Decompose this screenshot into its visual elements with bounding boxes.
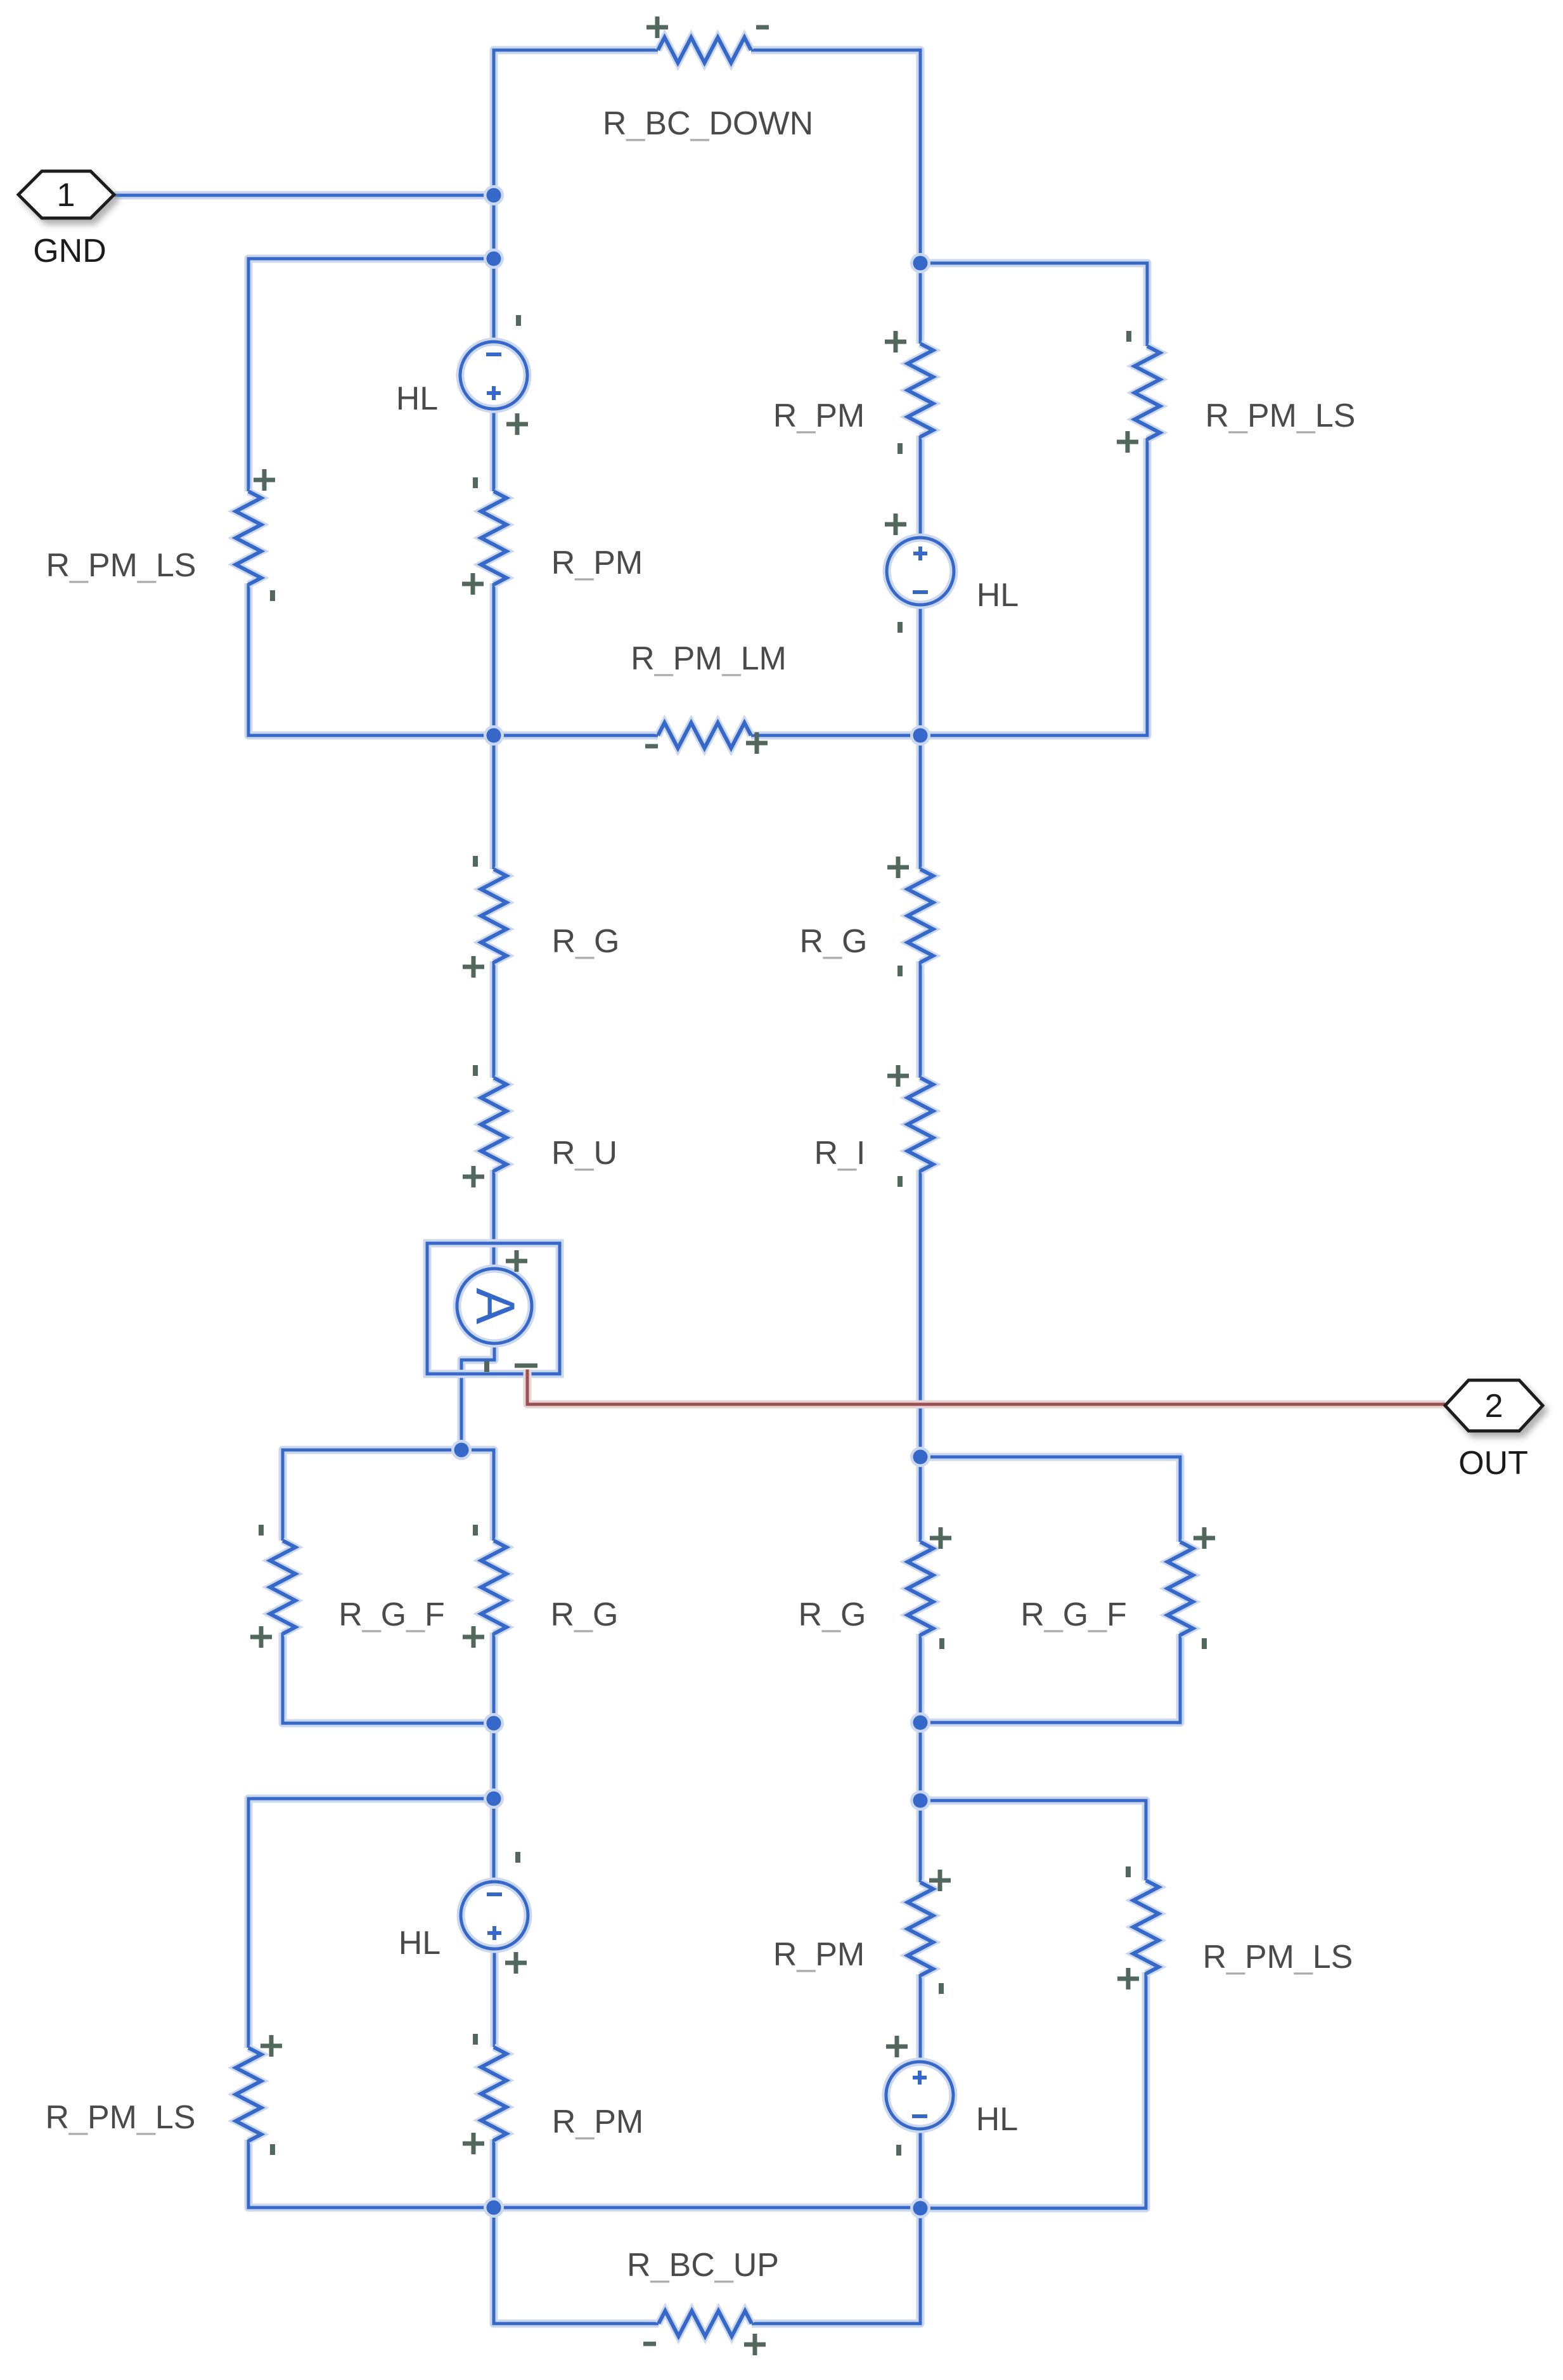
wire R_BC_UP loop left [494,2208,659,2324]
wire node H to HL-LL top [490,1799,498,1883]
wire R_G_F-LR bottom to node J [920,1634,1180,1723]
node G (junction dot) [484,1713,504,1733]
wire node A to node B [490,195,498,259]
node busR (junction dot) [910,725,930,746]
wire bottom bus middle [494,2204,920,2212]
wire R_PM-LR bottom to HL-LR top [917,1974,925,2063]
wire LL R_PM_LS bottom to bus [248,2140,494,2208]
svg-text:OUT: OUT [1458,1445,1528,1482]
wire R_U to ammeter circle [490,1170,498,1272]
voltage source HL lower-right (circle symbol) [886,2062,953,2129]
resistor R_PM lower-right polarity marks [929,1870,951,1891]
ammeter U1 circle with A glyph [457,1269,532,1343]
resistor zigzag R_G_F lower-left [270,1541,295,1634]
svg-text:A: A [465,1288,525,1324]
resistor R_G_F lower-right polarity marks [1193,1527,1215,1549]
node F (junction dot) [451,1440,472,1460]
wire node K to R_PM-LR top [917,1801,925,1882]
svg-text:R_PM_LS: R_PM_LS [46,547,196,584]
voltage source HL top-left (circle symbol) [460,342,527,409]
svg-text:R_BC_DOWN: R_BC_DOWN [603,105,813,142]
wire ammeter minus to port OUT (signal) [527,1369,1445,1404]
wire node I to R_G-LR lead [917,1457,925,1542]
svg-text:R_BC_UP: R_BC_UP [627,2247,779,2284]
wire node F jog to R_G-LL lead [461,1450,494,1541]
resistor R_PM_LS top-right polarity marks [1126,331,1131,342]
resistor zigzag R_PM top-left [481,491,506,585]
node K (junction dot) [910,1790,930,1811]
wire node I to R_G_F-LR lead [920,1457,1180,1542]
wire node C to TR R_PM_LS top [920,263,1147,346]
wire LR R_PM_LS bottom to bus [920,1972,1146,2208]
resistor R_BC_UP polarity marks [643,2342,656,2346]
resistor R_G mid-left polarity marks [473,856,478,867]
svg-text:HL: HL [396,380,438,417]
wire R_BC_DOWN loop left/top [494,50,658,195]
wire R_G-LR bottom to node J [917,1634,925,1723]
port 2 OUT hexagon [1445,1380,1543,1431]
node busL (junction dot) [484,725,504,746]
wire R_PM-TL bottom to left bus [490,583,498,735]
wire bus to TR R_PM_LS bottom [920,438,1147,735]
svg-text:R_G: R_G [800,923,868,960]
node A (junction dot) [484,185,504,205]
wire TL R_PM_LS branch lower to bus [248,583,494,735]
svg-text:R_U: R_U [551,1135,617,1172]
wire R_G-MR to R_I [917,961,925,1078]
resistor R_PM_LS lower-right polarity marks [1126,1866,1131,1877]
voltage source HL lower-left polarity marks [515,1852,520,1863]
resistor zigzag R_PM lower-right [908,1882,933,1976]
resistor R_G lower-right polarity marks [930,1527,951,1549]
port 1 GND hexagon [18,171,114,218]
wire ammeter out to node F [461,1342,494,1450]
resistor R_PM_LS top-left polarity marks [254,469,275,491]
resistor zigzag R_BC_UP [659,2311,752,2336]
svg-text:R_G: R_G [552,923,620,960]
resistor zigzag R_PM_LS top-left [236,491,261,585]
resistor R_G mid-right polarity marks [887,857,909,878]
wire node C to R_PM-TR top [917,263,925,344]
resistor R_PM lower-left polarity marks [473,2034,478,2045]
resistor R_PM_LS lower-left polarity marks [260,2035,282,2057]
svg-text:R_PM: R_PM [552,2104,643,2140]
svg-text:R_PM: R_PM [551,545,643,581]
svg-text:R_PM: R_PM [773,1936,865,1973]
wire HL-LR bottom to bottom bus [917,2128,925,2208]
resistor zigzag R_G lower-right [908,1542,933,1635]
resistor zigzag R_PM_LM [658,723,751,748]
resistor R_U polarity marks [473,1065,478,1076]
svg-text:R_PM_LS: R_PM_LS [45,2099,195,2136]
resistor zigzag R_G mid-right [908,869,933,962]
resistor R_PM_LM polarity marks [645,744,658,749]
wire R_I bottom to node I [917,1170,925,1457]
svg-text:HL: HL [977,577,1019,614]
ammeter U1 block frame [427,1243,560,1374]
svg-text:1: 1 [57,177,75,214]
node botR (junction dot) [910,2198,930,2218]
svg-text:HL: HL [399,1925,441,1962]
wire R_G-ML to R_U [490,961,498,1078]
resistor zigzag R_U [481,1078,506,1171]
wire bus right segment [751,732,920,740]
resistor R_BC_DOWN polarity marks [646,16,668,38]
wire left bus to R_G-ML [490,735,498,869]
wire node J to node K [917,1723,925,1801]
voltage source HL top-left polarity marks [516,315,521,326]
resistor R_I polarity marks [887,1065,909,1087]
ammeter U1 polarity marks [506,1250,527,1272]
wire node F to R_G_F-LL lead [283,1450,461,1541]
resistor R_PM top-left polarity marks [473,477,478,488]
voltage source HL lower-left (circle symbol) [461,1882,528,1949]
wire node K to LR R_PM_LS lead [920,1801,1146,1880]
wire R_BC_DOWN loop top/right [751,50,920,263]
resistor zigzag R_BC_DOWN [658,37,751,63]
node B (junction dot) [484,249,504,269]
node botL (junction dot) [484,2197,504,2218]
node H (junction dot) [484,1788,504,1809]
wire TL R_PM_LS branch upper [248,259,494,491]
svg-text:HL: HL [976,2101,1018,2138]
voltage source HL top-right polarity marks [885,514,906,535]
svg-text:R_G_F: R_G_F [1020,1596,1127,1633]
resistor zigzag R_G mid-left [481,869,506,962]
wire bus left segment [494,732,658,740]
svg-text:R_PM_LM: R_PM_LM [631,640,787,677]
svg-text:R_PM_LS: R_PM_LS [1202,1939,1353,1976]
resistor zigzag R_G lower-left [481,1541,506,1634]
svg-text:R_I: R_I [814,1135,866,1172]
svg-text:R_G: R_G [799,1596,866,1633]
resistor zigzag R_G_F lower-right [1167,1542,1193,1635]
svg-text:R_G: R_G [551,1596,619,1633]
node C (junction dot) [910,253,930,273]
resistor zigzag R_PM_LS top-right [1135,346,1160,439]
resistor zigzag R_I [908,1078,933,1171]
resistor R_PM top-right polarity marks [885,331,906,352]
resistor zigzag R_PM_LS lower-right [1133,1880,1159,1974]
resistor zigzag R_PM_LS lower-left [236,2048,261,2141]
resistor zigzag R_PM top-right [908,344,933,437]
svg-text:GND: GND [33,233,106,269]
svg-text:R_PM: R_PM [773,398,865,434]
svg-text:2: 2 [1485,1388,1503,1425]
wire node G to node H [490,1723,498,1799]
wire R_PM-LL bottom to bottom bus [490,2139,498,2208]
svg-text:R_G_F: R_G_F [338,1596,445,1633]
voltage source HL top-right (circle symbol) [887,538,954,605]
wire R_PM-TR bottom to HL-TR top [917,436,925,539]
wire R_BC_UP loop right [752,2208,920,2324]
wire HL-LL bottom to R_PM-LL [491,1948,499,2047]
wire right bus to R_G-MR [917,735,925,869]
resistor R_G lower-left polarity marks [473,1525,478,1536]
resistor zigzag R_PM lower-left [481,2047,506,2140]
node J (junction dot) [910,1712,930,1733]
node I (junction dot) [910,1447,930,1467]
resistor R_G_F lower-left polarity marks [259,1525,264,1536]
wire R_G_F-LL bottom to node G [283,1633,494,1723]
wire port1 lead to node A [114,191,494,200]
wire HL-TR bottom to bus [917,604,925,735]
wire R_G-LL bottom to node G [490,1633,498,1723]
wire node B to HL-TL top [490,259,498,343]
wire node H to LL R_PM_LS lead [248,1799,494,2048]
voltage source HL lower-right polarity marks [886,2036,908,2057]
svg-text:R_PM_LS: R_PM_LS [1205,398,1355,434]
wire HL-TL bottom to R_PM-TL top [490,408,498,491]
